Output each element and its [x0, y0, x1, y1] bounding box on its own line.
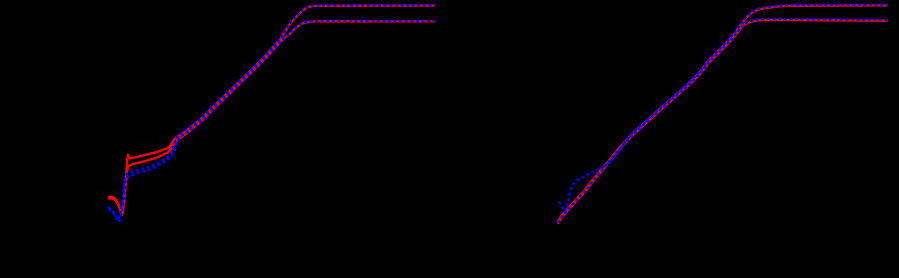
left chart blue dashed curve B (lower) [109, 21, 436, 222]
right chart blue dashed curve B (lower) [558, 19, 888, 223]
right chart blue dashed curve A (upper) [559, 5, 888, 212]
left chart blue dashed curve A (upper) [108, 5, 435, 220]
right chart red solid curve A (upper) [557, 5, 888, 222]
left chart red solid curve B (lower) [108, 21, 436, 215]
right chart red solid curve B (lower) [558, 20, 888, 224]
left chart red solid curve A (upper) [108, 6, 436, 214]
